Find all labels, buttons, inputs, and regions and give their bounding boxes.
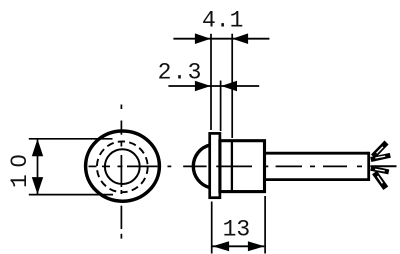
wire center lead <box>370 165 396 167</box>
cover dotted-zero center <box>15 158 19 162</box>
body internal line <box>231 140 233 193</box>
tube bottom <box>265 178 369 181</box>
extension line C (x=232.2) <box>231 34 233 138</box>
flange <box>210 133 220 197</box>
extension line D (13 dim right) <box>264 196 266 254</box>
wire D (steep down) <box>375 173 386 189</box>
front view vertical centerline <box>120 105 122 239</box>
svg-text:2.3: 2.3 <box>158 60 203 86</box>
2.3 right arrow <box>221 81 237 92</box>
2.3 dimension line <box>168 85 259 87</box>
wire B (shallow up) <box>371 155 391 159</box>
10-dim bottom extension line <box>29 194 113 196</box>
extension line A lower (13 dim left) <box>211 202 213 254</box>
dome (LED lens, side view) <box>193 145 209 188</box>
13 left arrow <box>213 241 230 251</box>
wire C (shallow down) <box>371 168 389 172</box>
front view: dashed circle (panel hole) <box>97 141 148 192</box>
10 dimension line <box>37 139 39 194</box>
body <box>220 141 265 192</box>
13 dimension line <box>213 245 265 247</box>
tube end cap <box>367 152 370 181</box>
front view: inner circle (lens) <box>105 149 140 184</box>
extension line B (x=220.6) <box>220 81 222 132</box>
svg-text:10: 10 <box>7 147 33 188</box>
svg-text:4.1: 4.1 <box>202 7 243 33</box>
svg-text:13: 13 <box>223 217 251 243</box>
4.1 left arrow <box>195 33 211 44</box>
tube top <box>265 152 369 155</box>
4.1 dimension line <box>173 38 269 40</box>
10 up arrow <box>32 139 43 156</box>
wire A (steep up) <box>373 143 387 157</box>
extension line A upper (x=211) <box>210 34 212 130</box>
10-dim top extension line <box>29 138 113 140</box>
2.3 left arrow <box>195 81 211 92</box>
4.1 right arrow <box>232 33 248 44</box>
front view: outer circle <box>86 131 160 201</box>
13 right arrow <box>248 241 265 251</box>
horizontal centerline (common axis) <box>89 165 363 167</box>
10 down arrow <box>32 177 43 194</box>
